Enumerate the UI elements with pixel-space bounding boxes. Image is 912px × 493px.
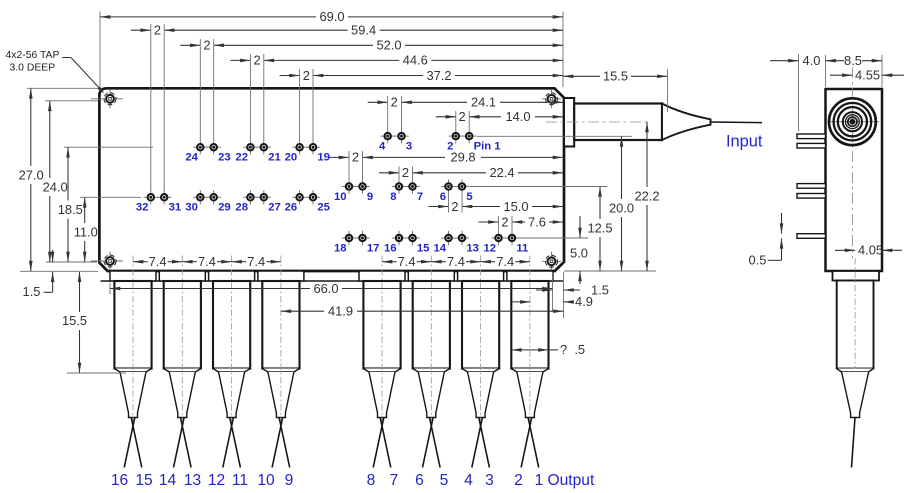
output connector 5 fiber pair — [380, 418, 391, 468]
svg-text:31: 31 — [169, 202, 182, 214]
dimension 2 (pins 20-19) — [280, 75, 300, 77]
svg-text:52.0: 52.0 — [376, 38, 401, 53]
svg-text:20.0: 20.0 — [609, 200, 634, 215]
output connector 3 header — [209, 271, 255, 281]
svg-text:29.8: 29.8 — [450, 150, 475, 165]
svg-text:4: 4 — [379, 141, 386, 153]
side view body — [826, 89, 883, 271]
svg-text:4: 4 — [464, 472, 473, 489]
output connector 7 fiber pair — [479, 418, 490, 468]
svg-text:7.6: 7.6 — [528, 214, 546, 229]
svg-text:7: 7 — [390, 472, 399, 489]
extension lines pins 24-23 columns — [199, 39, 201, 141]
svg-text:11: 11 — [516, 242, 528, 254]
output connector 2 fiber pair — [181, 418, 192, 468]
output connector 1 header — [110, 271, 156, 281]
output connector 8 header — [507, 271, 553, 281]
svg-text:12.5: 12.5 — [587, 220, 612, 235]
extension line 24.0 datum — [45, 100, 98, 102]
svg-text:30: 30 — [185, 202, 198, 214]
pin 9 — [355, 186, 369, 188]
input fiber — [711, 121, 763, 124]
output connector 5 shoulder — [363, 369, 400, 373]
svg-text:29: 29 — [218, 202, 231, 214]
side view collar — [833, 271, 880, 281]
mounting hole top-left — [91, 98, 123, 100]
extension line header8 right — [552, 272, 554, 311]
output connector 4 header — [258, 271, 304, 281]
pin 10 — [342, 186, 356, 188]
svg-text:2: 2 — [352, 150, 359, 165]
extension lines pins 10-9 — [348, 151, 350, 180]
side view boot centerline — [854, 258, 856, 421]
dimension 4.05 side boot — [835, 249, 855, 251]
svg-text:16: 16 — [111, 472, 128, 489]
pin 30 — [193, 196, 207, 198]
input connector taper — [662, 104, 711, 141]
extension line body right top — [562, 12, 564, 88]
pin 21 — [257, 146, 271, 148]
extension line body left top — [99, 12, 101, 88]
input centerline — [546, 121, 649, 123]
side view boot — [837, 281, 874, 369]
pin 5 — [455, 186, 469, 188]
dimension 22.2 fiber height — [645, 122, 649, 132]
output connector 7 centerline — [480, 256, 482, 422]
dimension 7.4 connector pitch right group — [382, 260, 392, 264]
svg-text:32: 32 — [136, 202, 149, 214]
pin 28 — [243, 196, 257, 198]
output connector 1 centerline — [132, 256, 134, 422]
output connector 4 boot — [262, 281, 299, 369]
dimension 1.5 right — [536, 289, 553, 291]
svg-text:? .5: ? .5 — [560, 342, 585, 357]
svg-text:25: 25 — [317, 202, 330, 214]
svg-text:20: 20 — [285, 152, 298, 164]
svg-text:10: 10 — [334, 191, 347, 203]
svg-text:26: 26 — [285, 202, 298, 214]
input ferrule line / 20.0 extension — [477, 135, 632, 137]
side view fiber port crosshair — [828, 121, 879, 123]
pin 7 — [405, 186, 419, 188]
svg-text:8: 8 — [390, 191, 396, 203]
extension line pin row A left — [64, 146, 153, 148]
svg-text:4.05: 4.05 — [858, 243, 883, 258]
side view pin row bar 4 — [797, 194, 826, 199]
pin 3 — [394, 135, 408, 137]
dimension 44.6 — [431, 59, 563, 61]
svg-text:14: 14 — [159, 472, 177, 489]
extension line pin row B right — [470, 186, 607, 188]
dimension 18.5 — [66, 147, 70, 157]
input connector tube — [574, 104, 662, 141]
side view centerline — [851, 67, 853, 258]
dimension ? .5 boot width — [511, 348, 521, 352]
dimension 27.0 — [29, 88, 33, 98]
pin 13 — [455, 237, 469, 239]
pin 31 — [157, 196, 171, 198]
mounting hole bottom-right — [542, 260, 561, 262]
output connector 8 boot — [511, 281, 548, 369]
svg-text:6: 6 — [415, 472, 424, 489]
svg-text:41.9: 41.9 — [328, 304, 353, 319]
output connector 8 centerline — [529, 256, 531, 422]
svg-text:11.0: 11.0 — [74, 224, 98, 239]
dimension 2 at y=172.8 — [379, 172, 399, 174]
pin 18 — [342, 237, 356, 239]
dimension 4.55 side — [830, 74, 852, 76]
svg-text:12: 12 — [208, 472, 225, 489]
svg-text:2: 2 — [391, 95, 398, 110]
svg-text:15.5: 15.5 — [62, 313, 87, 328]
pin 8 — [392, 186, 406, 188]
output connector 7 boot — [462, 281, 499, 369]
pin 29 — [207, 196, 221, 198]
side view pin row bar 1 — [797, 134, 826, 139]
output connector 8 shoulder — [511, 369, 548, 373]
pin 17 — [355, 237, 369, 239]
output connector 8 fiber pair — [528, 418, 539, 468]
svg-text:11: 11 — [232, 472, 248, 489]
svg-text:7: 7 — [417, 191, 423, 203]
main body (front view housing outline) — [99, 88, 564, 271]
extension lines pins 12-11 (above) — [498, 216, 500, 231]
output connector 2 header — [159, 271, 205, 281]
extension line input taper tip — [667, 69, 669, 112]
output connector 6 boot — [413, 281, 450, 369]
extension lines pins 8-7 — [398, 167, 400, 180]
output connector 3 taper — [219, 372, 245, 418]
svg-text:1.5: 1.5 — [23, 284, 41, 299]
svg-text:1: 1 — [535, 472, 544, 489]
svg-text:2: 2 — [203, 38, 210, 53]
pin 32 — [144, 196, 158, 198]
extension line body right lower — [563, 272, 565, 318]
svg-text:15: 15 — [135, 472, 153, 489]
extension line pin row C right — [518, 237, 588, 239]
svg-text:2: 2 — [451, 199, 458, 214]
svg-text:24: 24 — [185, 152, 198, 164]
svg-text:2: 2 — [514, 472, 523, 489]
dimension 15.0 — [532, 206, 563, 208]
pin 25 — [306, 196, 320, 198]
extension lines pins 6-5 (below) — [448, 194, 450, 213]
extension lines pins 32-31 columns — [150, 24, 152, 191]
dimension 15.5 input connector length — [563, 75, 573, 79]
svg-text:14.0: 14.0 — [505, 109, 530, 124]
dimension 11.0 — [83, 197, 87, 207]
svg-text:18: 18 — [334, 242, 347, 254]
dimension 2 (pins 22-21) — [230, 59, 250, 61]
svg-text:9: 9 — [285, 472, 294, 489]
pin 20 — [292, 146, 306, 148]
output connector 4 taper — [268, 372, 294, 418]
output connector 3 fiber pair — [230, 418, 241, 468]
output connector 4 fiber pair — [279, 418, 290, 468]
dimension 4.0 side — [770, 60, 799, 62]
svg-text:24.1: 24.1 — [471, 95, 496, 110]
svg-text:4.0: 4.0 — [803, 53, 821, 68]
svg-text:15: 15 — [417, 242, 430, 254]
dimension 2 at y=157.4 — [329, 156, 349, 158]
side view taper — [842, 372, 869, 418]
svg-text:12: 12 — [484, 242, 497, 254]
output connector 7 taper — [468, 372, 494, 418]
extension line body bottom right — [564, 270, 656, 272]
extension line body top left — [27, 87, 98, 89]
svg-text:27.0: 27.0 — [19, 167, 44, 182]
svg-text:7.4: 7.4 — [496, 254, 514, 269]
output connector 5 boot — [363, 281, 400, 369]
output connector 7 header — [458, 271, 504, 281]
side view fiber port concentric rings — [829, 98, 876, 145]
dimension 69.0 — [100, 15, 110, 19]
svg-text:5: 5 — [440, 472, 449, 489]
pin 26 — [292, 196, 306, 198]
svg-text:23: 23 — [218, 152, 231, 164]
dimension 41.9 — [281, 309, 291, 313]
dimension 24.1 — [500, 101, 563, 103]
svg-text:19: 19 — [317, 152, 330, 164]
pin 27 — [257, 196, 271, 198]
dimension 59.4 — [380, 29, 563, 31]
svg-text:8: 8 — [367, 472, 376, 489]
svg-text:8.5: 8.5 — [844, 53, 862, 68]
svg-text:9: 9 — [367, 191, 373, 203]
svg-text:2: 2 — [459, 109, 466, 124]
output connector 2 taper — [169, 372, 195, 418]
extension line header1 left — [109, 283, 111, 294]
output connector 6 taper — [418, 372, 444, 418]
svg-text:4x2-56 TAP: 4x2-56 TAP — [6, 50, 60, 61]
dimension 2 (pins 32-31) — [131, 29, 151, 31]
dimension 2 at y=116.8 — [436, 116, 456, 118]
dimension 7.6 — [549, 221, 563, 223]
pin 12 — [491, 237, 505, 239]
dimension 4.9 — [512, 301, 530, 303]
dimension 24.0 — [48, 101, 52, 111]
extension line boot bottom left — [67, 372, 126, 374]
side view fiber — [852, 418, 856, 468]
output connector 3 shoulder — [213, 369, 250, 373]
svg-text:Output: Output — [548, 472, 595, 489]
svg-text:1.5: 1.5 — [591, 282, 609, 297]
svg-text:15.0: 15.0 — [503, 199, 528, 214]
dimension 12.5 pin row B height — [598, 187, 602, 197]
svg-text:2: 2 — [154, 23, 161, 38]
bottom mounting plate line — [101, 280, 564, 282]
svg-text:7.4: 7.4 — [198, 254, 216, 269]
svg-text:3: 3 — [406, 141, 412, 153]
output connector 6 centerline — [430, 256, 432, 422]
svg-text:4.55: 4.55 — [855, 68, 880, 83]
dimension 2 at y=102.3 — [368, 101, 388, 103]
svg-text:14: 14 — [434, 242, 447, 254]
output connector 3 boot — [213, 281, 250, 369]
dimension 20.0 pin row A height — [620, 136, 624, 146]
svg-text:2: 2 — [402, 165, 409, 180]
extension lines pins 4-3 — [387, 96, 389, 129]
svg-text:5.0: 5.0 — [570, 245, 588, 260]
extension line pin row B left — [80, 196, 141, 198]
svg-text:2: 2 — [303, 68, 310, 83]
svg-text:21: 21 — [268, 152, 281, 164]
pin 16 — [392, 237, 406, 239]
pin 1 — [462, 135, 476, 137]
svg-text:10: 10 — [257, 472, 275, 489]
extension line side pins left — [798, 54, 800, 131]
svg-text:28: 28 — [235, 202, 248, 214]
dimension 7.4 connector pitch left group — [133, 260, 143, 264]
svg-text:6: 6 — [440, 191, 446, 203]
pin 22 — [243, 146, 257, 148]
svg-text:24.0: 24.0 — [43, 179, 68, 194]
extension lines pins 22-21 columns — [249, 54, 251, 141]
output connector 5 taper — [369, 372, 395, 418]
output connector 4 shoulder — [262, 369, 299, 373]
svg-text:44.6: 44.6 — [403, 53, 428, 68]
output connector 1 taper — [120, 372, 146, 418]
svg-text:37.2: 37.2 — [426, 68, 451, 83]
svg-text:16: 16 — [384, 242, 397, 254]
svg-text:22: 22 — [235, 152, 248, 164]
svg-text:2: 2 — [501, 214, 508, 229]
svg-text:0.5: 0.5 — [749, 253, 767, 268]
svg-text:5: 5 — [466, 191, 472, 203]
side view shoulder — [837, 369, 874, 373]
side view pin row bar 2 — [797, 143, 826, 148]
dimension 14.0 — [535, 116, 563, 118]
pin 11 — [505, 237, 519, 239]
dimension 29.8 — [481, 156, 563, 158]
output connector 6 header — [408, 271, 454, 281]
output connector 8 taper — [517, 372, 543, 418]
svg-text:18.5: 18.5 — [58, 202, 83, 217]
svg-text:27: 27 — [268, 202, 281, 214]
svg-text:Input: Input — [726, 133, 763, 151]
output connector 5 centerline — [381, 256, 383, 422]
pin 4 — [381, 135, 395, 137]
svg-text:7.4: 7.4 — [247, 254, 265, 269]
pin 14 — [441, 237, 455, 239]
output connector 2 boot — [164, 281, 201, 369]
svg-text:3.0 DEEP: 3.0 DEEP — [10, 63, 56, 74]
svg-text:17: 17 — [367, 242, 380, 254]
dimension 2 at y=206.5 — [429, 206, 449, 208]
svg-text:7.4: 7.4 — [447, 254, 465, 269]
output connector 5 header — [359, 271, 405, 281]
svg-text:2: 2 — [254, 53, 261, 68]
dimension 8.5 side — [826, 59, 836, 63]
svg-text:3: 3 — [485, 472, 494, 489]
dimension 2 (pins 24-23) — [180, 44, 200, 46]
svg-text:15.5: 15.5 — [603, 69, 628, 84]
dimension 5.0 pin row C height — [579, 216, 581, 238]
dimension 2 at y=222.0 — [479, 221, 499, 223]
extension lines pins 2-1 — [455, 111, 457, 129]
output connector 1 fiber pair — [131, 418, 142, 468]
extension line body bottom left — [20, 270, 98, 272]
output connector 3 centerline — [231, 256, 233, 422]
dimension 15.5 boot length — [78, 272, 82, 282]
pin 15 — [405, 237, 419, 239]
output connector 6 fiber pair — [430, 418, 441, 468]
svg-text:13: 13 — [466, 242, 479, 254]
svg-text:4.9: 4.9 — [575, 294, 593, 309]
pin 2 — [449, 135, 463, 137]
mounting hole bottom-left — [91, 260, 123, 262]
side view pin row bar 5 — [797, 234, 826, 239]
svg-text:66.0: 66.0 — [313, 281, 338, 296]
note leader line — [62, 57, 71, 59]
svg-text:69.0: 69.0 — [319, 9, 344, 24]
dimension 66.0 connector span — [110, 287, 120, 291]
svg-text:Pin 1: Pin 1 — [474, 141, 501, 153]
dimension 52.0 — [405, 44, 563, 46]
output connector 4 centerline — [280, 256, 282, 422]
output connector 2 centerline — [181, 256, 183, 422]
dimension 22.4 — [518, 172, 563, 174]
input connector flange — [564, 98, 574, 147]
extension line lid bottom datum — [46, 261, 97, 263]
svg-text:7.4: 7.4 — [149, 254, 167, 269]
pin 23 — [207, 146, 221, 148]
pin 19 — [306, 146, 320, 148]
output connector 2 shoulder — [164, 369, 201, 373]
svg-text:59.4: 59.4 — [351, 23, 376, 38]
side view pin row bar 3 — [797, 184, 826, 189]
svg-text:22.2: 22.2 — [634, 188, 659, 203]
pin 24 — [193, 146, 207, 148]
svg-text:22.4: 22.4 — [489, 165, 514, 180]
mounting hole top-right — [542, 98, 561, 100]
dimension 37.2 — [455, 75, 563, 77]
pin 6 — [441, 186, 455, 188]
output connector 6 shoulder — [413, 369, 450, 373]
output connector 7 shoulder — [462, 369, 499, 373]
svg-text:7.4: 7.4 — [398, 254, 416, 269]
extension lines pins 20-19 columns — [299, 69, 301, 141]
svg-text:13: 13 — [184, 472, 201, 489]
extension lines side body top — [825, 55, 827, 87]
output connector 1 boot — [114, 281, 151, 369]
output connector 1 shoulder — [114, 369, 151, 373]
